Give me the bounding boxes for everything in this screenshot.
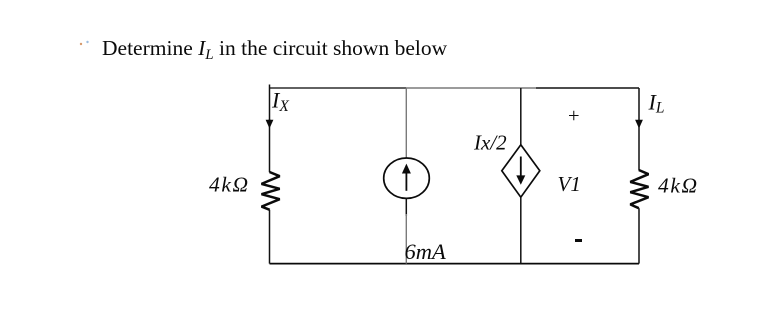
resistor R1 4k ohm left <box>262 172 280 210</box>
wire stub top-left <box>269 85 271 89</box>
resistor R2 4k ohm right <box>630 170 648 208</box>
svg-text:V1: V1 <box>558 172 581 196</box>
wire bottom <box>270 263 640 265</box>
wire left branch upper <box>269 88 271 172</box>
svg-text:4kΩ: 4kΩ <box>658 174 699 198</box>
current source arrow (up) <box>405 172 407 191</box>
svg-text:Ix/2: Ix/2 <box>473 131 507 155</box>
svg-text:+: + <box>568 105 580 127</box>
arrow IL direction <box>635 120 643 129</box>
svg-text:IL: IL <box>648 89 665 116</box>
svg-text:6mA: 6mA <box>405 239 446 264</box>
dependent source arrow (down) <box>520 157 522 177</box>
wire top middle segment <box>406 87 536 89</box>
label minus sign <box>575 239 582 242</box>
wire top right segment <box>536 87 639 89</box>
artifact dots <box>80 43 82 45</box>
svg-text:IX: IX <box>271 88 289 116</box>
svg-text:Determine IL in the circuit sh: Determine IL in the circuit shown below <box>102 36 448 63</box>
current source I1 6mA <box>384 158 430 198</box>
dependent current source Ix/2 (diamond) <box>502 145 540 197</box>
wire dependent-source branch upper <box>520 88 522 145</box>
wire right branch upper <box>638 88 640 170</box>
wire current-source branch lower <box>405 214 407 264</box>
wire dependent-source branch lower <box>520 197 522 263</box>
wire right branch lower <box>638 208 640 263</box>
wire top left segment <box>270 87 407 89</box>
svg-text:4kΩ: 4kΩ <box>209 173 250 197</box>
wire left branch lower <box>269 210 271 264</box>
arrow Ix direction <box>269 120 271 124</box>
wire current-source branch upper <box>405 88 407 158</box>
wire current-source branch lower lead <box>405 198 407 216</box>
